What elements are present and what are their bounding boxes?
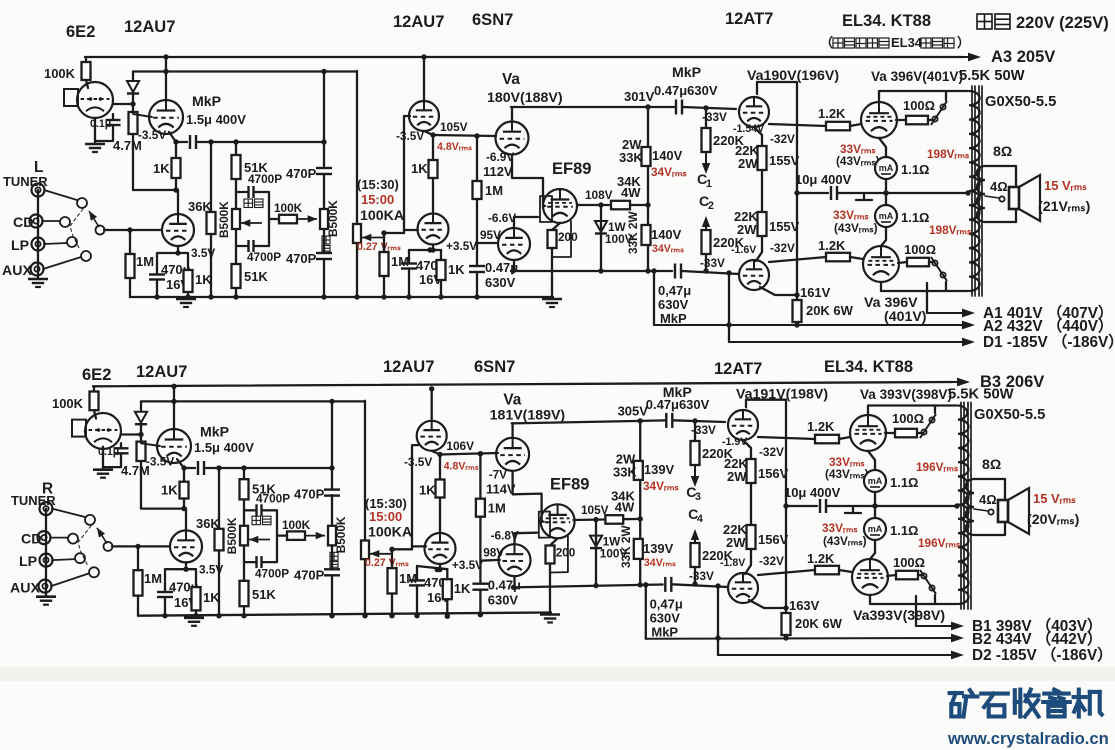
tube V4 EF89 (541, 504, 575, 538)
value 1K V1b (195, 272, 212, 287)
value 0.47u630V (654, 83, 718, 98)
tube label 6SN7 (474, 357, 515, 376)
wire cd lead (50, 537, 68, 539)
wire V2b grid stub (412, 545, 426, 547)
net label A3 205V (980, 372, 1044, 391)
svg-text:156V: 156V (758, 466, 789, 481)
value 51K lower (244, 269, 268, 284)
svg-text:D2 -185V （-186V）: D2 -185V （-186V） (972, 646, 1113, 664)
wire tap (985, 196, 999, 198)
wire cathode rc (409, 249, 441, 251)
label 5.5K 50W (959, 68, 1025, 84)
junction grid-1M (135, 544, 140, 549)
label 34Vrms lower (644, 557, 676, 569)
value 470P lower (286, 251, 317, 266)
svg-text:2: 2 (708, 200, 714, 212)
capacitor MkP lower (675, 264, 681, 279)
svg-text:36K: 36K (196, 516, 220, 531)
wire 200 down (551, 248, 553, 299)
wire V2b cathode (437, 565, 442, 573)
wire 470P col top (331, 401, 333, 488)
pot 100KA volume (353, 224, 383, 243)
selector arrow (97, 528, 107, 544)
tube V2a 12AU7 (409, 101, 439, 131)
junction tone 2 (233, 139, 326, 144)
svg-text:(21Vᵣₘₛ): (21Vᵣₘₛ) (1038, 199, 1091, 215)
resistor 1.2K upper (826, 122, 850, 131)
label C1 (686, 485, 701, 503)
value 100K bridge (282, 518, 311, 532)
wire bias drop (728, 273, 730, 342)
label -1.54V (733, 123, 764, 135)
resistor 1K V1b (192, 587, 201, 610)
resistor 100R lower (907, 258, 929, 267)
junction 6E2-diode (138, 432, 143, 437)
value 630V lower (658, 297, 689, 312)
selector arm (104, 542, 113, 551)
svg-text:-3.5V: -3.5V (146, 454, 174, 468)
svg-text:34Vᵣₘₛ: 34Vᵣₘₛ (644, 557, 676, 569)
svg-text:2W: 2W (727, 469, 747, 484)
label mains CJK (977, 14, 1010, 29)
label -3.5V V2a (404, 455, 432, 469)
wire 100K left (277, 534, 287, 536)
contact TUNER (77, 198, 87, 208)
svg-text:3: 3 (695, 491, 701, 503)
wire aux lead (43, 257, 81, 269)
junction grid leak (474, 133, 479, 138)
label B500K bass (217, 201, 231, 238)
svg-text:196Vᵣₘₛ: 196Vᵣₘₛ (918, 536, 961, 550)
svg-text:301V: 301V (624, 89, 655, 104)
wire 200 down (549, 564, 551, 615)
value 100R upper (892, 411, 924, 426)
EF89 shield box (539, 512, 550, 538)
resistor 22K lower (747, 525, 756, 549)
value 1.2K lower (807, 551, 835, 566)
tap 4R (999, 196, 1004, 201)
junction bus 10 (478, 612, 483, 617)
resistor 4.7M (137, 442, 161, 461)
svg-text:33K: 33K (613, 464, 637, 479)
tube V1b 12AU7 (170, 530, 202, 562)
meter mA lower (875, 205, 897, 227)
svg-text:1M: 1M (391, 254, 409, 269)
svg-text:15 Vᵣₘₛ: 15 Vᵣₘₛ (1044, 178, 1087, 193)
svg-text:1K: 1K (411, 161, 428, 176)
value 100K bridge (274, 201, 303, 215)
tube V7 EL34 (863, 246, 899, 282)
label -6.6V (488, 211, 516, 225)
resistor 100K grid (90, 392, 99, 411)
jack AUX (31, 263, 44, 276)
wire grid1 1.2K (758, 437, 815, 439)
svg-text:1.2K: 1.2K (818, 238, 846, 253)
label 161V (800, 285, 831, 300)
contact LP (75, 553, 85, 563)
switch upper (920, 414, 936, 438)
wire 34K out (623, 518, 640, 521)
svg-text:B500K: B500K (334, 516, 348, 553)
label 15Vrms (1033, 491, 1076, 506)
label Va396V lower a (853, 608, 945, 624)
value 36K (196, 516, 220, 531)
capacitor 470P lower (324, 569, 340, 575)
label 198Vrms lower (929, 223, 972, 237)
junction ct (965, 190, 970, 195)
svg-text:12AT7: 12AT7 (725, 9, 773, 28)
wire 1K to node (183, 499, 185, 509)
ground EF89 (540, 615, 560, 623)
transformer core (961, 402, 971, 609)
junction grid leak (478, 451, 483, 456)
junction wiper-1M (381, 230, 386, 235)
junction bus 7 (389, 613, 394, 618)
arrow C2 (702, 216, 710, 230)
wire diode top (140, 401, 142, 410)
wire V1b cathode (186, 562, 196, 587)
junction rail-feed (163, 69, 168, 74)
svg-text:4.8Vᵣₘₛ: 4.8Vᵣₘₛ (444, 460, 479, 472)
meter mA lower (864, 518, 886, 540)
switch upper (931, 101, 947, 125)
label MkP coupling (663, 385, 692, 401)
value 1.2K upper (818, 106, 846, 121)
svg-text:6SN7: 6SN7 (474, 357, 515, 376)
svg-text:51K: 51K (252, 587, 276, 602)
value 1K V2b (448, 262, 465, 277)
label -32V upper (770, 132, 795, 146)
junction 33K top (638, 418, 643, 423)
junction bus 2 (185, 294, 190, 299)
tube label 12AT7 (725, 9, 773, 28)
value 16V (166, 277, 189, 292)
junction cathode (175, 250, 180, 255)
svg-text:1M: 1M (136, 254, 154, 269)
label -1.6V (720, 557, 745, 569)
wire plate feed (141, 400, 365, 402)
tube V1b 12AU7 (162, 214, 194, 246)
junction A2-bias (715, 635, 720, 640)
wire meter to V7 (870, 540, 875, 559)
selector arc (78, 526, 91, 566)
wire V7 screen (887, 575, 896, 576)
resistor 100R upper (906, 116, 928, 125)
wire 6E2 to diode (113, 103, 133, 105)
svg-text:5.5K 50W: 5.5K 50W (959, 68, 1025, 84)
wire 470u down (156, 280, 158, 297)
wire bias drop (717, 586, 719, 655)
ground bus left (176, 299, 196, 307)
resistor 100K bridge (287, 531, 305, 540)
label 95V (483, 546, 504, 560)
value 1.2K lower (818, 238, 846, 253)
label -3.5V V1a (138, 128, 166, 142)
svg-text:-1.8V: -1.8V (720, 557, 745, 569)
label 43Vrms upper (825, 467, 869, 481)
svg-text:95V: 95V (480, 228, 501, 242)
svg-text:4Ω: 4Ω (979, 492, 997, 507)
wire to 12AT7b grid (682, 271, 739, 274)
arrow A3 (940, 53, 981, 62)
svg-text:34Vᵣₘₛ: 34Vᵣₘₛ (652, 243, 684, 255)
wire V3b cathode (513, 260, 515, 271)
tube V7 EL34 (852, 559, 888, 595)
svg-text:305V: 305V (618, 403, 649, 418)
svg-text:0,47μ: 0,47μ (650, 597, 683, 612)
wire diode-4.7M (140, 425, 142, 442)
label -6.9V (486, 150, 514, 164)
label Va190V (747, 68, 839, 84)
tube V3b 6SN7 (498, 228, 530, 260)
contact CD (60, 217, 70, 227)
wire secondary top (974, 479, 1005, 535)
capacitor 10u 400V (786, 499, 957, 513)
wire V3a plate (511, 423, 513, 438)
wire V6 screen (885, 432, 895, 434)
wire 6E2 cathode (94, 118, 96, 144)
label MkP lower (660, 311, 687, 326)
label EF89 (550, 475, 589, 494)
label 198Vrms lower (918, 536, 961, 550)
wire volume col (364, 401, 366, 541)
svg-text:EF89: EF89 (550, 475, 589, 494)
label channel letter (34, 159, 43, 176)
junction bus 5 (329, 613, 334, 618)
resistor 220K upper (691, 441, 700, 465)
wire to 12AT7 grid (683, 107, 736, 109)
resistor 36K (207, 212, 216, 234)
label -6.6V (491, 528, 519, 542)
value 51K lower (252, 587, 276, 602)
wire V2 grid feed (433, 135, 496, 136)
wire V2a cathode (432, 451, 443, 480)
label B500K bass (225, 517, 239, 554)
EF89 shield box (540, 196, 552, 222)
wire V1a cathode (177, 459, 184, 482)
resistor 100K bridge (279, 215, 297, 224)
svg-text:33Vᵣₘₛ: 33Vᵣₘₛ (833, 208, 869, 222)
wire V5a cathode (754, 127, 762, 146)
wire V7 plate (881, 282, 968, 291)
svg-text:98V: 98V (483, 546, 504, 560)
value 2W upper (616, 451, 636, 466)
svg-text:6E2: 6E2 (82, 365, 111, 384)
resistor 22K upper (758, 146, 767, 170)
resistor 51K upper (232, 155, 241, 179)
wire zener col (600, 205, 602, 271)
wire A2 drop (653, 271, 655, 325)
svg-text:470P: 470P (294, 568, 325, 583)
selector arc (70, 209, 83, 250)
label 112V (483, 164, 513, 179)
svg-text:100KA: 100KA (360, 208, 404, 224)
wire V6 screen (896, 119, 906, 121)
svg-text:36K: 36K (188, 199, 212, 214)
zener 1W 100V (590, 536, 602, 549)
value 1M grid (488, 500, 506, 515)
wire wiper out (391, 548, 412, 550)
wire 36K col (218, 468, 220, 616)
label 21Vrms (1027, 512, 1080, 528)
contact AUX (81, 251, 91, 261)
junction bus 7 (381, 294, 386, 299)
label 43Vrms lower (834, 221, 878, 235)
value 470P upper (286, 166, 317, 181)
junction tone 2 (241, 465, 334, 470)
label +3.5V (452, 558, 483, 572)
wire 1K V2b down (440, 250, 442, 297)
svg-text:-33V: -33V (689, 569, 714, 583)
svg-text:180V(188V): 180V(188V) (487, 90, 563, 106)
tube V3a 6SN7 (496, 438, 529, 471)
selector arrow (89, 211, 99, 227)
capacitor 470u 16V (157, 592, 173, 597)
wire switch upper (928, 91, 946, 120)
wire V2a plate (431, 389, 433, 421)
label LP (19, 554, 37, 570)
junction grid-1M (127, 227, 132, 232)
value 1.5u 400V (186, 112, 246, 127)
capacitor 470P lower (316, 253, 332, 259)
value 220K lower (713, 235, 745, 250)
wire EF89 plate (574, 518, 604, 521)
svg-text:1.5μ 400V: 1.5μ 400V (194, 440, 254, 455)
resistor 1M wiper (380, 252, 389, 276)
label 15-00 (361, 192, 394, 207)
svg-text:108V: 108V (585, 188, 613, 202)
resistor 1.2K upper (815, 435, 839, 444)
wire V2 grid feed (440, 453, 498, 455)
junction bus 1 (154, 294, 159, 299)
resistor 1K V2b (437, 260, 446, 280)
junction cathode (183, 567, 188, 572)
wire tone feed (204, 467, 332, 469)
resistor 200 (548, 230, 557, 248)
label bass CJK (244, 199, 263, 208)
value 1M input (144, 571, 162, 586)
svg-text:mA: mA (868, 476, 883, 486)
svg-text:EL34: EL34 (891, 35, 923, 50)
svg-text:-32V: -32V (759, 445, 784, 459)
wire 22K to V5b (745, 549, 751, 574)
label 155V lower (769, 219, 800, 234)
wire 1K-V2b plate (439, 498, 441, 532)
wire lower coupling (511, 270, 672, 272)
junction 220K top (692, 418, 697, 423)
wire 6SN7 plate rail (512, 420, 666, 423)
junction 10u mid (883, 190, 888, 195)
junction bus 10 (474, 294, 479, 299)
svg-text:181V(189V): 181V(189V) (490, 407, 566, 423)
wire jack bus (45, 509, 47, 597)
wire V6 plate (879, 91, 968, 102)
value 1K V2b (454, 581, 471, 596)
junction bus 3 (216, 613, 221, 618)
wire pot-470P (323, 229, 325, 252)
label CD (21, 532, 41, 548)
scan shading band (0, 667, 1115, 681)
value 1M input (136, 254, 154, 269)
tap 4R (988, 509, 993, 514)
diode D1 (127, 81, 139, 94)
label 140V lower (643, 541, 674, 556)
label 33Vrms lower (822, 521, 858, 535)
svg-text:198Vᵣₘₛ: 198Vᵣₘₛ (927, 147, 970, 161)
tube V2a 12AU7 (417, 421, 447, 451)
wire 1K down (195, 610, 197, 615)
svg-text:B500K: B500K (326, 200, 340, 237)
arrow A2 (654, 321, 975, 330)
resistor 1M input (134, 570, 143, 595)
svg-text:4Ω: 4Ω (990, 179, 1008, 194)
value 1M grid (485, 183, 503, 198)
svg-text:156V: 156V (758, 532, 789, 547)
wire V6 cathode (868, 451, 875, 470)
wire 6E2 cathode (102, 447, 104, 470)
wire tap (974, 509, 988, 511)
tube label 6E2 (82, 365, 111, 384)
capacitor 0.1u (103, 443, 129, 467)
svg-text:EL34. KT88: EL34. KT88 (824, 357, 913, 376)
label Va396V upper (871, 69, 963, 84)
svg-text:-32V: -32V (770, 241, 795, 255)
svg-text:G0X50-5.5: G0X50-5.5 (985, 94, 1056, 110)
wire 6SN7 plate rail (511, 106, 675, 108)
wire 470P down (323, 259, 325, 297)
svg-text:B2 434V （442V）: B2 434V （442V） (972, 630, 1102, 648)
jack CD (38, 531, 51, 544)
wire A2 drop (645, 585, 647, 639)
svg-text:Va 396V(401V): Va 396V(401V) (871, 69, 963, 84)
label 198Vrms upper (927, 147, 970, 161)
value 1.1R upper (901, 162, 929, 177)
svg-text:-32V: -32V (759, 554, 784, 568)
svg-text:8Ω: 8Ω (993, 144, 1012, 160)
wire diode top (132, 72, 134, 81)
wire 100K leads (94, 386, 96, 418)
value 1K V1b (203, 590, 220, 605)
svg-text:1.2K: 1.2K (818, 106, 846, 121)
svg-text:12AU7: 12AU7 (124, 17, 175, 36)
svg-text:MkP: MkP (660, 311, 687, 326)
label MkP (200, 424, 229, 440)
capacitor 470u 16V (149, 275, 165, 280)
wire grid1 1.2K (769, 124, 826, 126)
value 100V (600, 547, 628, 561)
wire grid2 out (850, 257, 863, 259)
pot B500K treble (328, 526, 336, 546)
svg-text:630V: 630V (488, 592, 519, 607)
junction zener top (593, 517, 598, 522)
svg-text:(43Vᵣₘₛ): (43Vᵣₘₛ) (836, 154, 880, 168)
junction rail-V2 plate (421, 54, 426, 59)
value 0.47u630V (646, 397, 710, 412)
wire V3b cathode (513, 576, 515, 587)
wire V1b plate stem (177, 190, 179, 214)
svg-text:1K: 1K (153, 161, 170, 176)
label treble CJK (322, 236, 330, 254)
wire 1M leads (137, 546, 139, 615)
value 22K upper (735, 143, 759, 158)
capacitor 4700P lower (236, 219, 269, 252)
value 047u lower (650, 597, 683, 612)
svg-text:A2 432V （440V）: A2 432V （440V） (983, 317, 1113, 335)
wire lp lead (44, 243, 67, 244)
value 2W upper (622, 137, 642, 152)
switch lower (920, 570, 936, 594)
label Va396V lower a (864, 295, 918, 311)
